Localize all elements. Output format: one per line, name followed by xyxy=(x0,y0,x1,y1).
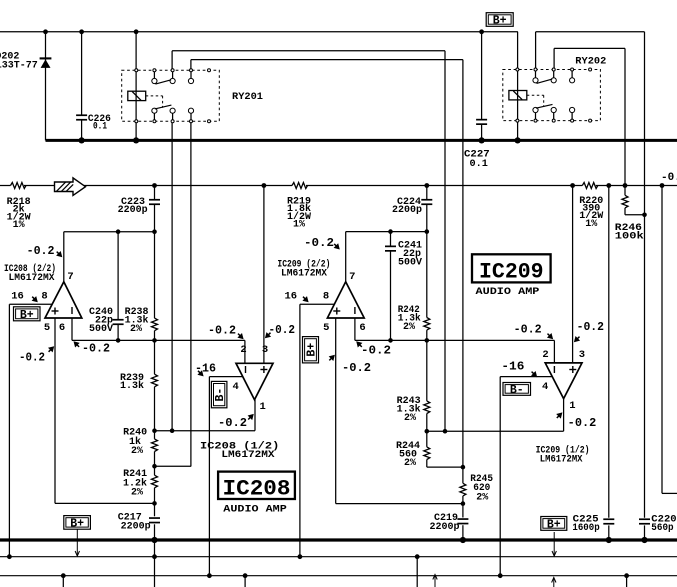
svg-text:B+: B+ xyxy=(306,343,319,357)
svg-text:3: 3 xyxy=(579,349,585,361)
svg-text:2200p: 2200p xyxy=(118,205,148,216)
svg-text:500V: 500V xyxy=(398,257,422,268)
svg-text:AUDIO AMP: AUDIO AMP xyxy=(223,504,287,516)
svg-text:-16: -16 xyxy=(501,361,524,374)
svg-text:2%: 2% xyxy=(404,413,416,424)
svg-text:3: 3 xyxy=(262,344,268,356)
svg-text:1600p: 1600p xyxy=(572,523,599,534)
svg-text:-0.2: -0.2 xyxy=(568,417,597,430)
svg-text:5: 5 xyxy=(323,322,329,334)
svg-text:-0.2: -0.2 xyxy=(27,245,55,258)
svg-text:2: 2 xyxy=(240,344,246,356)
svg-text:1%: 1% xyxy=(585,219,597,230)
svg-text:0.1: 0.1 xyxy=(470,159,488,170)
svg-text:RY202: RY202 xyxy=(575,57,606,68)
svg-text:4: 4 xyxy=(542,381,548,393)
svg-text:2%: 2% xyxy=(131,488,143,499)
svg-text:2: 2 xyxy=(542,349,548,361)
svg-text:2%: 2% xyxy=(131,446,143,457)
svg-text:6: 6 xyxy=(59,322,65,334)
svg-text:5: 5 xyxy=(44,322,50,334)
svg-text:2%: 2% xyxy=(476,492,488,503)
svg-text:7: 7 xyxy=(349,271,355,283)
svg-text:0.1: 0.1 xyxy=(93,122,107,133)
svg-text:16: 16 xyxy=(11,291,24,303)
svg-text:B+: B+ xyxy=(20,309,34,322)
svg-text:-0.2: -0.2 xyxy=(19,351,45,364)
svg-text:8: 8 xyxy=(323,291,329,303)
svg-text:2200p: 2200p xyxy=(392,205,422,216)
svg-text:LM6172MX: LM6172MX xyxy=(9,273,55,284)
svg-text:-0.2: -0.2 xyxy=(361,344,391,357)
svg-text:100k: 100k xyxy=(615,231,644,243)
svg-text:RY201: RY201 xyxy=(232,92,263,103)
svg-text:B+: B+ xyxy=(547,518,561,531)
svg-text:8: 8 xyxy=(41,291,47,303)
svg-text:1SS133T-77: 1SS133T-77 xyxy=(0,61,38,72)
svg-text:16: 16 xyxy=(284,291,297,303)
svg-text:-16: -16 xyxy=(195,363,216,376)
svg-text:-0.2: -0.2 xyxy=(82,342,110,355)
svg-text:1%: 1% xyxy=(13,220,25,231)
svg-text:-0.2: -0.2 xyxy=(304,237,334,250)
svg-text:-0.2: -0.2 xyxy=(208,324,236,337)
svg-text:B-: B- xyxy=(510,384,524,397)
svg-text:LM6172MX: LM6172MX xyxy=(540,454,583,465)
svg-text:LM6172MX: LM6172MX xyxy=(221,450,274,461)
svg-text:B-: B- xyxy=(214,388,227,402)
svg-text:1.3k: 1.3k xyxy=(120,380,144,392)
svg-text:7: 7 xyxy=(67,271,73,283)
svg-text:B+: B+ xyxy=(493,15,507,28)
svg-text:560p: 560p xyxy=(651,523,673,534)
svg-text:2%: 2% xyxy=(403,322,415,333)
svg-text:-0.2: -0.2 xyxy=(269,324,296,337)
svg-text:6: 6 xyxy=(359,322,365,334)
svg-text:2%: 2% xyxy=(404,458,416,469)
svg-text:AUDIO AMP: AUDIO AMP xyxy=(476,286,540,298)
svg-text:B+: B+ xyxy=(70,517,84,530)
svg-text:1: 1 xyxy=(260,401,266,413)
svg-text:-0.2: -0.2 xyxy=(514,323,542,336)
svg-text:500V: 500V xyxy=(89,324,113,335)
svg-text:IC208: IC208 xyxy=(223,477,291,502)
svg-text:2200p: 2200p xyxy=(121,522,151,533)
svg-text:-0.2: -0.2 xyxy=(218,417,247,430)
svg-text:-0.2: -0.2 xyxy=(577,321,604,334)
svg-text:LM6172MX: LM6172MX xyxy=(281,269,327,280)
svg-text:1: 1 xyxy=(569,400,575,412)
svg-text:-0.2: -0.2 xyxy=(342,362,371,375)
svg-text:IC209: IC209 xyxy=(479,260,544,285)
svg-text:4: 4 xyxy=(233,381,239,393)
svg-text:2200p: 2200p xyxy=(429,522,459,533)
svg-text:2%: 2% xyxy=(130,324,142,335)
svg-text:1%: 1% xyxy=(293,220,305,231)
svg-text:-0.: -0. xyxy=(661,172,677,184)
